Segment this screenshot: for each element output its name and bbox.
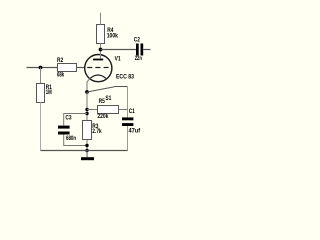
wire C3 bottom loop: [64, 135, 87, 146]
resistor R2: [58, 64, 77, 72]
wire R1 bottom lead: [40, 103, 42, 151]
svg-text:220k: 220k: [97, 113, 108, 120]
svg-text:22n: 22n: [135, 55, 142, 62]
wire ground rail: [41, 150, 128, 152]
node input junction: [39, 66, 43, 70]
wire R5 right lead: [119, 109, 128, 111]
capacitor C2: [136, 44, 139, 56]
wire S1 to right branch: [114, 86, 128, 88]
wire right branch vertical: [127, 87, 129, 118]
V1 anode plate bar: [93, 59, 103, 61]
tube V1 envelope: [85, 55, 112, 82]
svg-text:R5: R5: [99, 98, 106, 105]
wire R1 top lead: [40, 68, 42, 84]
svg-text:C3: C3: [65, 115, 72, 122]
wire R4 top supply stub: [100, 13, 102, 25]
wire C1 bottom stem: [127, 126, 129, 151]
svg-text:ECC 83: ECC 83: [116, 74, 134, 81]
svg-text:C1: C1: [129, 108, 136, 115]
node C3 junction: [85, 112, 88, 115]
svg-text:68k: 68k: [57, 72, 65, 79]
wire C3 branch top: [64, 114, 87, 126]
svg-text:100k: 100k: [107, 32, 119, 39]
svg-text:1M: 1M: [46, 89, 52, 96]
svg-text:V1: V1: [115, 56, 121, 63]
node ground rail junction: [85, 149, 88, 152]
wire R4 bottom lead: [100, 44, 102, 50]
svg-text:C2: C2: [134, 37, 141, 44]
wire anode to C2: [101, 49, 137, 51]
resistor R1: [37, 84, 45, 103]
capacitor C1: [122, 117, 133, 120]
node R5 junction: [85, 108, 88, 111]
svg-text:680n: 680n: [66, 135, 76, 142]
wire anode lead: [100, 50, 102, 59]
wire C2 output stub: [143, 49, 150, 51]
wire R3 bottom lead: [86, 140, 88, 151]
svg-text:2.7k: 2.7k: [92, 128, 102, 135]
wire input net to grid node: [27, 67, 58, 69]
svg-text:S1: S1: [105, 95, 111, 102]
resistor R5: [98, 106, 119, 114]
capacitor C3: [58, 126, 70, 129]
wire R5 left lead: [87, 109, 98, 111]
wire cathode vertical: [86, 92, 88, 121]
node cathode junction: [85, 90, 89, 94]
ground: [86, 151, 88, 158]
svg-text:47uf: 47uf: [129, 127, 141, 134]
svg-text:R2: R2: [57, 57, 64, 64]
V1 grid (dashed): [87, 67, 110, 69]
switch S1 blade: [88, 87, 115, 92]
node anode junction: [99, 48, 103, 52]
node C3 return junction: [85, 144, 88, 147]
wire cathode lead: [87, 78, 90, 92]
wire R2 to grid pin: [77, 67, 86, 69]
resistor R3: [83, 121, 92, 140]
resistor R4: [97, 25, 105, 44]
V1 cathode arc: [90, 75, 106, 78]
